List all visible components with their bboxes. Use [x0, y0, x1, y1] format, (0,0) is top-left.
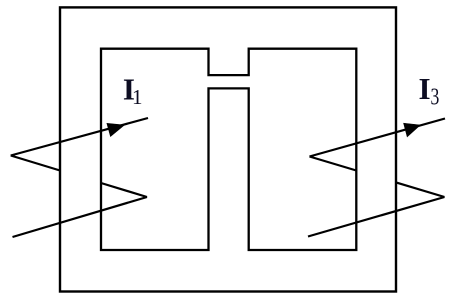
winding W1 hidden wire segment right part [101, 183, 147, 197]
svg-text:I: I [419, 71, 431, 106]
current arrow I1 head [107, 123, 125, 136]
winding W3 upper front wire segment with current direction [310, 119, 446, 157]
core window outline with center leg and air gap [101, 49, 356, 250]
svg-text:3: 3 [431, 83, 440, 110]
winding W3 hidden wire segment right part [396, 182, 445, 197]
winding W3 hidden wire segment left part [310, 157, 357, 171]
svg-text:1: 1 [132, 85, 143, 109]
winding W1 upper front wire segment with current direction [11, 118, 148, 156]
winding W1 hidden wire segment left part [11, 156, 60, 171]
winding W3 lower front wire segment [308, 197, 445, 237]
winding W1 lower front wire segment [13, 197, 148, 237]
core outer boundary [60, 7, 396, 291]
current arrow I3 head [404, 123, 421, 137]
